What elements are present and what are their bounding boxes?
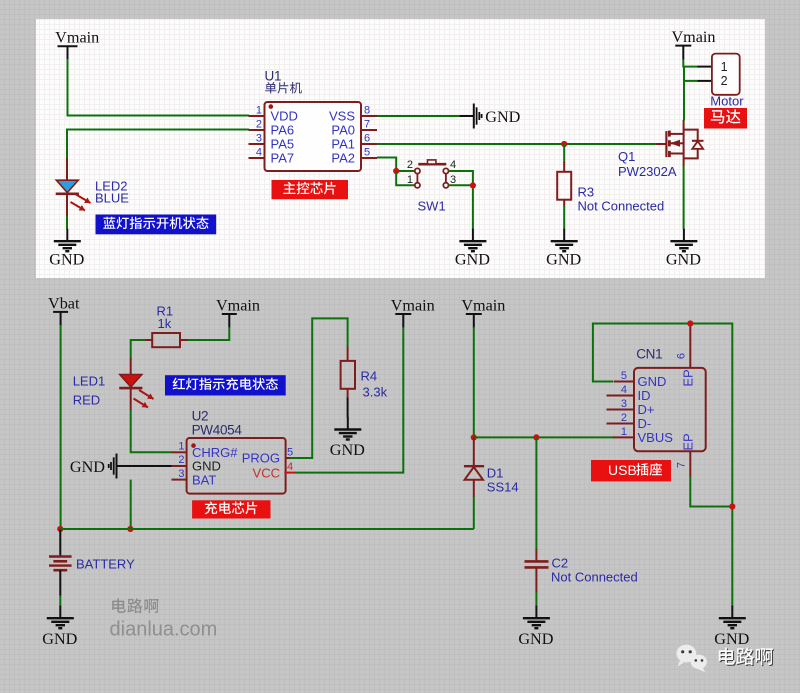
power port Vmain (top-right) [671, 28, 715, 60]
LED1 cathode wire to U2 CHRG# [130, 389, 132, 410]
wire Vmain down / motor pins / to Q1 drain [682, 59, 685, 121]
logo text 电路啊 [720, 649, 736, 666]
svg-text:PA2: PA2 [331, 151, 355, 166]
svg-text:4: 4 [450, 159, 456, 171]
battery lead [59, 529, 61, 556]
wire C2 branch [535, 437, 537, 550]
svg-text:U1: U1 [265, 69, 282, 84]
svg-text:1: 1 [621, 426, 627, 438]
annotation 马达 [704, 108, 747, 129]
svg-text:GND: GND [49, 251, 84, 269]
LED2 anode lead [66, 158, 68, 181]
svg-text:PA0: PA0 [331, 123, 355, 138]
annotation 蓝灯指示开机状态 [96, 215, 217, 235]
LED2 blue LED [56, 180, 78, 192]
svg-text:Vmain: Vmain [391, 297, 435, 315]
svg-text:5: 5 [364, 147, 370, 159]
ground for Q1 [666, 229, 701, 269]
svg-text:BAT: BAT [192, 472, 216, 487]
LED2 emission arrows [76, 195, 91, 204]
svg-text:GND: GND [485, 108, 520, 126]
svg-text:GND: GND [638, 374, 667, 389]
svg-text:RED: RED [73, 392, 100, 407]
wire R3 to ground [563, 206, 565, 229]
svg-text:PROG: PROG [242, 451, 280, 466]
annotation USB插座 [591, 460, 671, 481]
svg-text:3: 3 [621, 398, 627, 410]
U2 left pins [172, 465, 187, 467]
svg-text:5: 5 [287, 446, 293, 458]
battery BATTERY [49, 556, 135, 571]
U1 left pin stubs 1-4 [249, 115, 265, 117]
junction node EP6 [687, 320, 693, 326]
wire C2 to ground [535, 592, 537, 607]
svg-text:VBUS: VBUS [638, 430, 674, 445]
junction node battery [57, 526, 63, 532]
sideways ground at U2 GND pin [117, 465, 172, 467]
CN1 EP pin7 stub (bottom) [689, 451, 691, 477]
svg-text:CN1: CN1 [636, 347, 662, 362]
svg-text:VDD: VDD [271, 109, 298, 124]
wire Vbat down to battery node [60, 325, 62, 529]
LED2 cathode wire to ground [66, 195, 68, 216]
ground for battery [42, 606, 77, 649]
svg-text:Not Connected: Not Connected [551, 570, 638, 585]
connector Motor [712, 54, 740, 95]
svg-text:GND: GND [330, 441, 365, 459]
svg-text:2: 2 [256, 119, 262, 131]
wire junction to R3 [563, 144, 565, 163]
wire CN1 GND pin5 up and over to right rail [593, 324, 732, 608]
ground for R3 [546, 229, 581, 269]
svg-text:7: 7 [364, 119, 370, 131]
annotation 充电芯片 [192, 500, 270, 518]
svg-text:1: 1 [407, 174, 413, 186]
svg-text:GND: GND [518, 630, 553, 648]
svg-text:1: 1 [256, 105, 262, 117]
svg-text:7: 7 [676, 462, 688, 468]
wire Vmain to R1 [187, 327, 229, 340]
wire Vmain to U1 VDD pin1 [68, 59, 250, 116]
svg-text:Motor: Motor [710, 93, 744, 108]
svg-text:ID: ID [638, 388, 651, 403]
power port Vmain (R1) [216, 297, 260, 329]
svg-text:Vbat: Vbat [48, 294, 80, 312]
svg-text:Vmain: Vmain [55, 29, 99, 47]
resistor R3 [557, 172, 571, 200]
svg-text:3.3k: 3.3k [363, 384, 388, 399]
svg-text:LED1: LED1 [73, 374, 106, 389]
LED1 anode lead [130, 358, 132, 375]
ground for SW1 [455, 229, 490, 269]
svg-text:1: 1 [721, 60, 728, 74]
svg-text:SW1: SW1 [418, 199, 446, 214]
LED1 red LED [120, 375, 142, 387]
svg-text:dianlua.com: dianlua.com [110, 619, 218, 641]
svg-text:PA7: PA7 [271, 151, 295, 166]
U1 right pin stubs 8-5 [361, 115, 377, 117]
svg-text:EP: EP [681, 433, 696, 450]
svg-text:GND: GND [714, 630, 749, 648]
svg-text:Not Connected: Not Connected [578, 199, 665, 214]
svg-text:PW4054: PW4054 [192, 423, 243, 438]
svg-text:3: 3 [256, 133, 262, 145]
wire junction down to SW1 pin1 [396, 171, 415, 185]
CN1 EP pin6 stub (top) [689, 324, 691, 368]
wire U2 PROG pin5 to R4 [290, 318, 348, 458]
wire Q1 source to ground [683, 158, 685, 166]
power port Vmain (USB) [461, 297, 505, 329]
junction node D1 top [471, 434, 477, 440]
junction node BAT rail [127, 526, 133, 532]
wire U1 VSS pin8 to ground [377, 115, 459, 117]
svg-text:GND: GND [455, 251, 490, 269]
U2 right pins [286, 457, 291, 459]
svg-text:D1: D1 [487, 466, 504, 481]
svg-text:1: 1 [178, 441, 184, 453]
junction node EP7/right rail [729, 503, 735, 509]
capacitor C2 [525, 549, 638, 593]
svg-text:2: 2 [721, 74, 728, 88]
svg-text:PA6: PA6 [271, 123, 295, 138]
wire SW1 pins 3,4 to ground [449, 171, 473, 185]
junction node C2 [533, 434, 539, 440]
svg-text:VCC: VCC [253, 466, 280, 481]
svg-text:6: 6 [364, 133, 370, 145]
svg-text:GND: GND [546, 251, 581, 269]
svg-text:Vmain: Vmain [461, 297, 505, 315]
svg-text:PA1: PA1 [331, 137, 355, 152]
svg-text:D-: D- [638, 416, 652, 431]
U2 pin1 marker dot [191, 443, 196, 448]
wire battery to ground [59, 570, 61, 596]
annotation 红灯指示充电状态 [165, 375, 286, 395]
svg-text:Vmain: Vmain [216, 297, 260, 315]
ground for LED2 [49, 229, 84, 269]
svg-text:GND: GND [42, 630, 77, 648]
sideways ground at VSS [474, 104, 521, 129]
power port Vbat [48, 294, 80, 326]
VBUS rail wire to CN1 pin1 [474, 436, 614, 438]
svg-text:R3: R3 [578, 185, 595, 200]
svg-text:4: 4 [621, 384, 627, 396]
svg-text:PA5: PA5 [271, 137, 295, 152]
svg-text:BATTERY: BATTERY [76, 556, 135, 571]
svg-text:GND: GND [70, 458, 105, 476]
svg-text:BLUE: BLUE [95, 191, 129, 206]
power port Vmain (top-left) [55, 29, 99, 61]
resistor R4 [341, 361, 355, 389]
wire U1 PA6 pin2 to LED2 anode [67, 130, 249, 160]
svg-text:Vmain: Vmain [671, 28, 715, 46]
wire D1 anode to battery rail [473, 497, 475, 530]
IC U1 microcontroller body [265, 102, 362, 171]
svg-text:USB: USB [608, 462, 637, 478]
ground for C2 [518, 606, 553, 649]
wire U2 BAT pin3 down to battery rail [130, 480, 132, 529]
wire U1 PA2 pin5 to SW1 [377, 158, 415, 172]
wire EP7 to right rail [690, 477, 732, 507]
battery rail wire [60, 528, 474, 530]
watermark dianlua [112, 598, 126, 613]
transistor Q1 PW2302A N-MOSFET [656, 120, 704, 158]
connector CN1 USB body [634, 368, 706, 451]
wechat logo [676, 645, 707, 673]
svg-text:EP: EP [681, 369, 696, 386]
svg-text:8: 8 [364, 105, 370, 117]
svg-text:3: 3 [450, 174, 456, 186]
LED1 emission arrows [139, 390, 154, 399]
switch SW1 push-button [407, 159, 456, 214]
svg-text:D+: D+ [638, 402, 655, 417]
wire U1 PA1 pin6 to Q1 gate [377, 143, 656, 145]
junction node pin6/R3 [561, 141, 567, 147]
svg-text:6: 6 [676, 353, 688, 359]
svg-text:Q1: Q1 [618, 149, 635, 164]
junction node SW1 left [393, 168, 399, 174]
diode D1 SS14 [464, 437, 519, 497]
IC U2 PW4054 charger body [187, 438, 286, 494]
junction node SW1 right [470, 182, 476, 188]
R4 lead to ground [347, 398, 349, 418]
svg-text:2: 2 [621, 412, 627, 424]
svg-text:1k: 1k [158, 316, 172, 331]
svg-text:SS14: SS14 [487, 479, 519, 494]
svg-text:PW2302A: PW2302A [618, 164, 677, 179]
annotation 主控芯片 [272, 180, 349, 199]
white schematic panel [36, 19, 765, 278]
svg-text:GND: GND [666, 251, 701, 269]
ground for R4 [330, 417, 365, 459]
svg-text:2: 2 [407, 159, 413, 171]
svg-text:5: 5 [621, 370, 627, 382]
resistor R1 [152, 333, 180, 347]
wire R1 to LED1 [131, 340, 146, 359]
svg-text:4: 4 [256, 147, 262, 159]
svg-text:U2: U2 [192, 409, 209, 424]
svg-text:C2: C2 [552, 556, 569, 571]
ground for CN1 [714, 606, 749, 649]
power port Vmain (U2 VCC) [391, 297, 435, 329]
svg-text:3: 3 [178, 468, 184, 480]
wire Vmain down to VBUS rail [473, 327, 475, 437]
wire Vmain down to U2 VCC pin4 [295, 327, 403, 473]
svg-text:R4: R4 [361, 369, 378, 384]
motor pin stubs [698, 66, 712, 68]
svg-text:4: 4 [287, 461, 293, 473]
svg-text:2: 2 [178, 454, 184, 466]
svg-text:VSS: VSS [329, 109, 355, 124]
U1 pin1 marker dot [269, 104, 274, 109]
